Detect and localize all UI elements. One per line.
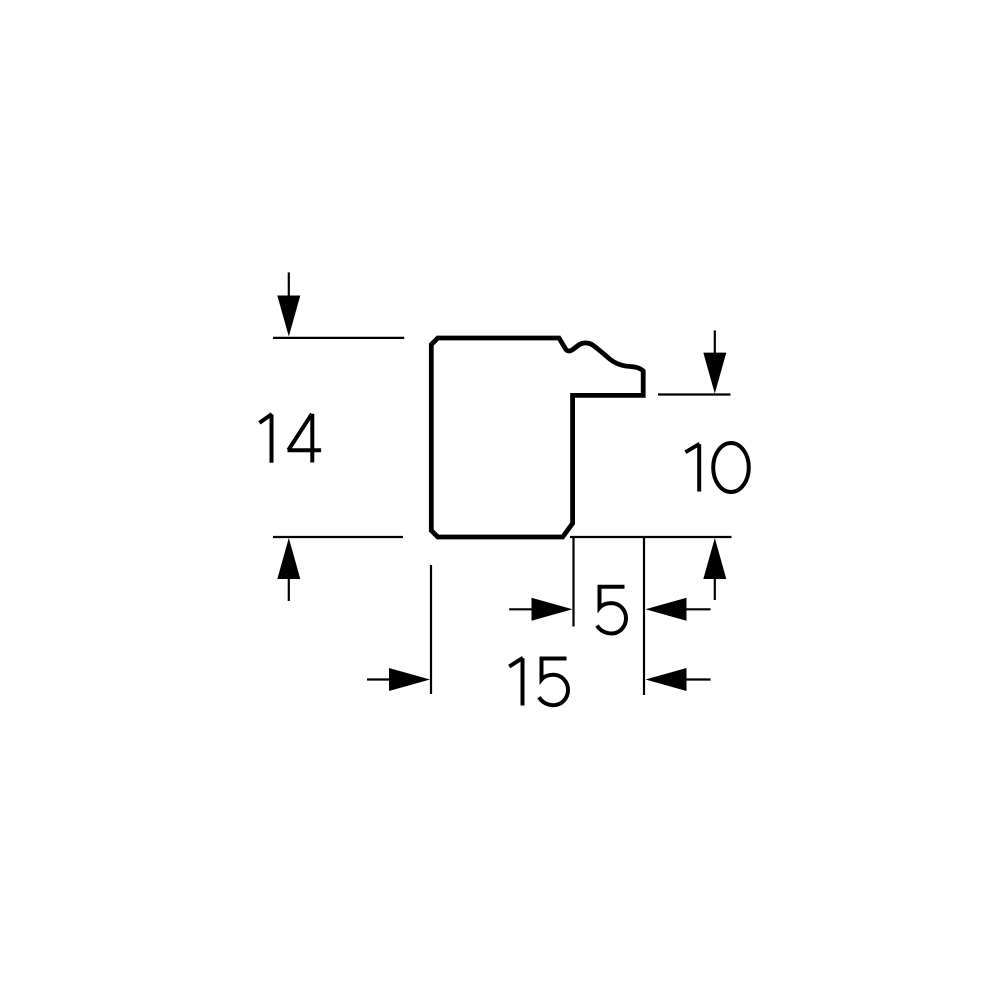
dimension 14: bottom extension line: [273, 536, 403, 538]
dimension 10: text "10": [685, 443, 748, 492]
dimension 5: left-pointing arrow: [646, 598, 711, 621]
dimension 10: down arrow: [703, 330, 726, 393]
dimension 10: bottom extension line: [570, 536, 732, 538]
dimension 10: top extension line: [658, 393, 731, 395]
dimension 14: down arrow: [277, 272, 300, 336]
dimension 5: left extension line: [572, 537, 574, 627]
dimension 14: text "14": [259, 414, 321, 463]
dimension 14: top extension line: [273, 337, 404, 339]
dimension 5: right-pointing arrow: [509, 598, 572, 621]
dimension 14: up arrow: [277, 538, 300, 601]
dimension 10: up arrow: [703, 538, 726, 600]
dimension 15: right-pointing arrow: [367, 668, 430, 691]
moulding profile cross-section outline: [431, 338, 643, 537]
dimension 15: left extension line: [430, 565, 432, 694]
dimension 5: text "5": [597, 587, 626, 634]
dimension 15: text "15": [509, 658, 568, 706]
dimension 5/15: right extension line: [643, 537, 645, 695]
dimension 15: left-pointing arrow: [646, 668, 711, 691]
